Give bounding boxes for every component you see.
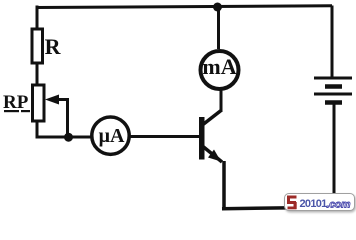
svg-text:20101: 20101 <box>300 198 328 210</box>
svg-text:.com: .com <box>327 199 351 211</box>
